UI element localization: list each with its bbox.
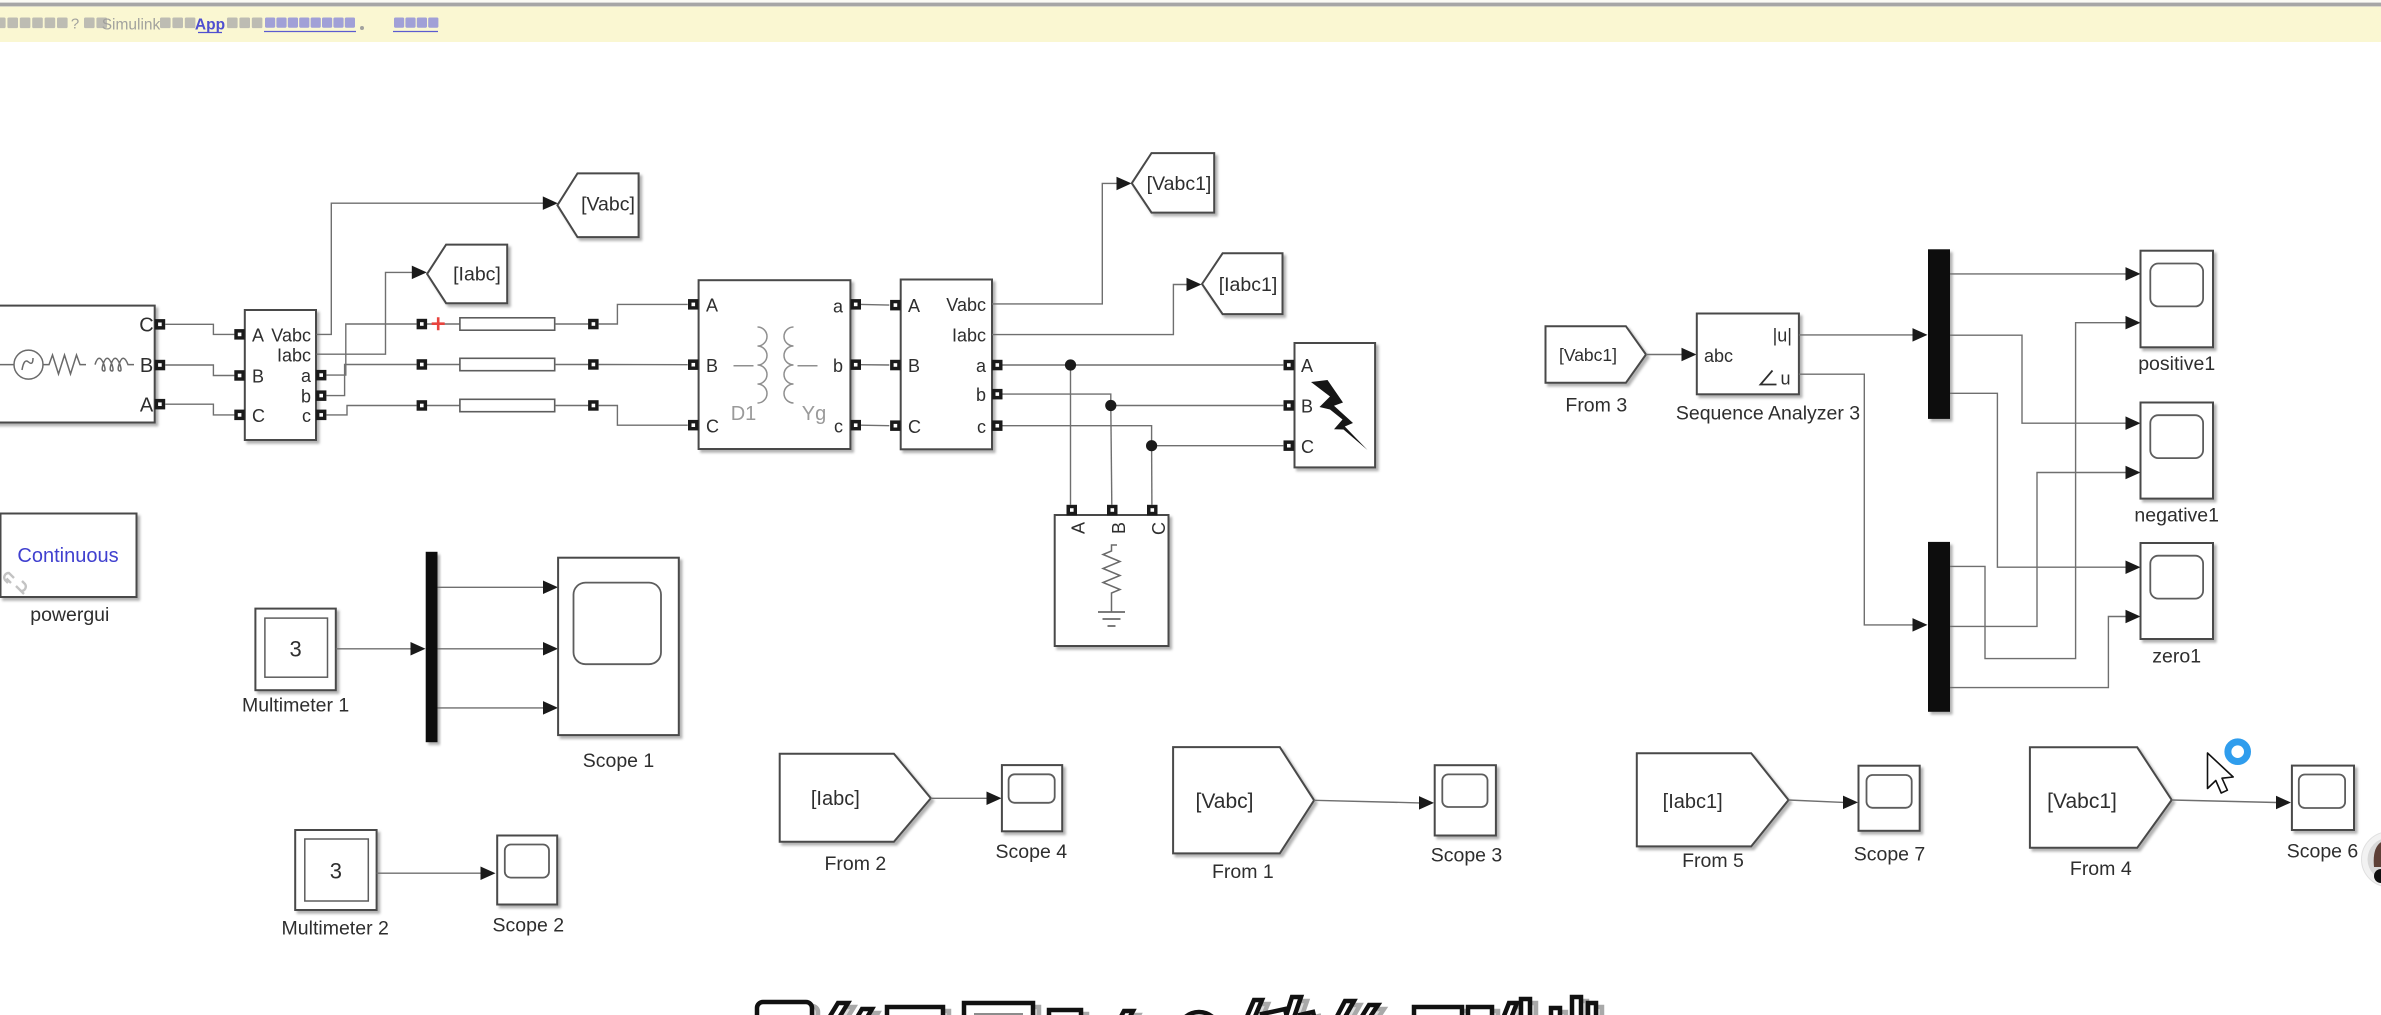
three-phase source block (cut off at left edge) xyxy=(0,306,165,423)
svg-text:Multimeter 2: Multimeter 2 xyxy=(282,918,389,940)
svg-text:b: b xyxy=(976,385,986,405)
wire line3 to transformer C xyxy=(599,406,688,426)
branch wire phase c down to load C xyxy=(1151,446,1153,505)
svg-text:powergui: powergui xyxy=(30,604,109,626)
wire From3 to sequence analyzer xyxy=(1646,354,1683,356)
from tag From 3 [Vabc1] xyxy=(1546,326,1647,416)
svg-text:[Vabc1]: [Vabc1] xyxy=(2047,790,2117,813)
svg-text:Multimeter 1: Multimeter 1 xyxy=(242,695,349,717)
svg-text:C: C xyxy=(1301,437,1314,457)
scope 1 xyxy=(558,558,679,772)
wire demux1 out3 to zero1 in1 xyxy=(1950,393,2127,567)
svg-text:[Vabc]: [Vabc] xyxy=(581,194,635,216)
svg-text:Iabc: Iabc xyxy=(277,346,311,366)
branch wire phase b down to load B xyxy=(1111,406,1112,505)
broken link icon xyxy=(4,573,26,594)
svg-text:Scope 7: Scope 7 xyxy=(1854,844,1926,866)
scope 3 xyxy=(1431,765,1503,866)
svg-text:D1: D1 xyxy=(731,403,757,425)
wire VI2 a to fault A xyxy=(1003,364,1284,366)
wire source B to VI1 B xyxy=(165,365,234,376)
svg-text:C: C xyxy=(139,315,153,337)
svg-text:From 5: From 5 xyxy=(1682,850,1744,872)
svg-text:Scope 2: Scope 2 xyxy=(493,915,565,937)
svg-text:A: A xyxy=(252,326,264,346)
svg-text:3: 3 xyxy=(330,859,342,884)
svg-text:[Vabc]: [Vabc] xyxy=(1196,790,1254,813)
wire line1 to transformer A xyxy=(599,304,688,324)
three-phase series RLC load (grounded, rotated) xyxy=(1055,505,1169,646)
svg-text:3: 3 xyxy=(289,637,301,662)
svg-text:From 3: From 3 xyxy=(1565,395,1627,417)
svg-text:A: A xyxy=(140,395,154,417)
scope zero1 xyxy=(2141,543,2214,668)
svg-text:Simulink: Simulink xyxy=(102,17,161,34)
busy spinner xyxy=(2228,742,2248,762)
svg-text:Scope 6: Scope 6 xyxy=(2287,841,2359,863)
transmission line phase b (RLC branch 2) xyxy=(417,358,599,370)
mouse cursor xyxy=(2208,753,2234,793)
svg-text:A: A xyxy=(908,296,920,316)
mux (left) xyxy=(426,552,438,742)
svg-text:B: B xyxy=(140,355,153,377)
scope 7 xyxy=(1854,766,1926,866)
wire angle-u to demux 2 xyxy=(1799,374,1914,625)
svg-text:Vabc: Vabc xyxy=(946,295,986,315)
goto tag [Iabc] xyxy=(427,245,507,304)
wire demux1 out2 to negative1 in1 xyxy=(1950,335,2127,423)
from tag From 4 [Vabc1] xyxy=(2030,747,2172,880)
goto tag [Iabc1] xyxy=(1202,253,1283,314)
from tag From 5 [Iabc1] xyxy=(1637,753,1789,872)
wire demux2 out1 to positive1 in2 xyxy=(1950,323,2127,659)
svg-text:[Iabc]: [Iabc] xyxy=(453,264,501,286)
svg-text:C: C xyxy=(706,416,719,436)
wire From4 to Scope6 xyxy=(2172,800,2277,803)
wire VI1 Vabc out to goto [Vabc] xyxy=(316,203,543,334)
wire source A to VI1 C xyxy=(165,404,234,415)
transmission line phase a (RLC branch 1) xyxy=(417,318,599,330)
svg-text:B: B xyxy=(252,367,264,387)
wire demux2 out2 to negative1 in2 xyxy=(1950,473,2127,627)
wire transformer b to VI2 B xyxy=(861,364,889,366)
svg-text:Scope 4: Scope 4 xyxy=(996,841,1068,863)
multimeter 2 xyxy=(282,830,389,940)
svg-text:B: B xyxy=(1301,397,1313,417)
caption glyph fragments (large chinese title, cut off at bottom) xyxy=(763,1001,1602,1015)
notification bar xyxy=(0,7,2381,42)
svg-text:a: a xyxy=(301,366,312,386)
mux out wires to scope1 xyxy=(438,586,545,588)
svg-text:a: a xyxy=(833,297,844,317)
wire transformer a to VI2 A xyxy=(861,303,889,306)
wire transformer c to VI2 C xyxy=(861,424,889,427)
goto tag [Vabc] xyxy=(557,173,638,237)
svg-text:negative1: negative1 xyxy=(2134,505,2219,527)
demux 2 (angles) xyxy=(1928,542,1950,712)
goto tag [Vabc1] xyxy=(1132,153,1214,213)
svg-text:A: A xyxy=(1301,356,1313,376)
scope 6 xyxy=(2287,766,2359,863)
svg-text:From 2: From 2 xyxy=(825,853,887,875)
lightning bolt icon xyxy=(1311,380,1368,450)
wire source C to VI1 A xyxy=(165,324,234,334)
svg-text:?: ? xyxy=(71,16,79,33)
svg-text:Sequence Analyzer 3: Sequence Analyzer 3 xyxy=(1676,403,1860,425)
three-phase fault block xyxy=(1284,343,1376,467)
wire |u| to demux 1 xyxy=(1799,334,1914,336)
svg-text:abc: abc xyxy=(1704,346,1733,366)
scope positive1 xyxy=(2138,251,2215,375)
top toolbar strip xyxy=(0,0,2381,6)
svg-text:B: B xyxy=(908,356,920,376)
svg-text:|u|: |u| xyxy=(1773,326,1792,346)
svg-text:B: B xyxy=(1109,522,1129,534)
svg-text:From 1: From 1 xyxy=(1212,861,1274,883)
wire demux1 out1 to positive1 in1 xyxy=(1950,273,2127,275)
wire VI2 b to fault B xyxy=(1003,394,1284,405)
svg-text:b: b xyxy=(301,386,311,406)
demux 1 (magnitudes) xyxy=(1928,249,1950,419)
svg-text:Scope 3: Scope 3 xyxy=(1431,845,1503,867)
svg-text:From 4: From 4 xyxy=(2070,858,2132,880)
svg-text:[Vabc1]: [Vabc1] xyxy=(1147,173,1212,195)
svg-text:A: A xyxy=(1069,522,1089,534)
svg-text:[Iabc1]: [Iabc1] xyxy=(1219,274,1278,296)
svg-text:zero1: zero1 xyxy=(2152,646,2201,668)
svg-text:c: c xyxy=(834,416,843,436)
svg-text:[Vabc1]: [Vabc1] xyxy=(1559,345,1617,365)
multimeter 1 xyxy=(242,609,349,717)
svg-text:Scope 1: Scope 1 xyxy=(583,750,655,772)
wire multimeter2 to scope2 xyxy=(377,872,482,874)
powergui block xyxy=(1,514,137,627)
wire line2 to transformer B xyxy=(599,364,688,366)
svg-text:b: b xyxy=(833,356,843,376)
three-phase V-I measurement 1 xyxy=(234,310,326,440)
wire VI2 c to fault C xyxy=(1003,426,1284,446)
from tag From 1 [Vabc] xyxy=(1173,747,1314,883)
red plus polarity marker xyxy=(432,317,445,330)
svg-text:Yg: Yg xyxy=(802,403,826,425)
wire multimeter1 to mux xyxy=(336,648,412,650)
svg-text:B: B xyxy=(706,356,718,376)
scope 4 xyxy=(996,765,1068,863)
wire VI2 Iabc out to goto [Iabc1] xyxy=(992,285,1188,335)
three-phase transformer D1/Yg xyxy=(688,280,861,449)
svg-text:Continuous: Continuous xyxy=(17,545,118,567)
svg-text:positive1: positive1 xyxy=(2138,353,2215,375)
wire From5 to Scope7 xyxy=(1789,800,1844,802)
wire From2 to Scope4 xyxy=(931,797,988,799)
svg-text:c: c xyxy=(977,417,986,437)
sequence analyzer 3 block xyxy=(1676,314,1860,425)
from tag From 2 [Iabc] xyxy=(780,754,931,875)
wire VI1 c to line 3 xyxy=(326,406,416,415)
notification text (chinese, partially cut at left) xyxy=(0,16,438,34)
svg-text:[Iabc1]: [Iabc1] xyxy=(1663,791,1723,813)
wire VI2 Vabc out to goto [Vabc1] xyxy=(992,183,1118,304)
svg-text:Iabc: Iabc xyxy=(952,326,986,346)
wire VI1 a to line 1 xyxy=(326,324,416,375)
svg-text:a: a xyxy=(976,356,987,376)
scope negative1 xyxy=(2134,403,2219,527)
wire VI1 b to line 2 xyxy=(326,365,416,396)
svg-text:C: C xyxy=(908,417,921,437)
wire VI1 Iabc out to goto [Iabc] xyxy=(316,272,412,354)
user avatar (cut at right edge) xyxy=(2362,832,2381,887)
svg-text:Vabc: Vabc xyxy=(271,326,311,346)
svg-text:C: C xyxy=(252,406,265,426)
svg-text:u: u xyxy=(1780,369,1790,389)
svg-text:c: c xyxy=(302,406,311,426)
branch wire phase a down to load A xyxy=(1070,365,1072,505)
scope 2 xyxy=(493,836,565,937)
wire From1 to Scope3 xyxy=(1314,800,1419,803)
three-phase V-I measurement 2 xyxy=(890,280,1002,450)
svg-text:C: C xyxy=(1149,522,1169,535)
svg-text:App: App xyxy=(195,17,225,34)
transmission line phase c (RLC branch 3) xyxy=(417,399,599,411)
svg-text:A: A xyxy=(706,296,718,316)
wire demux2 out3 to zero1 in2 xyxy=(1950,617,2127,688)
svg-text:[Iabc]: [Iabc] xyxy=(811,788,860,810)
